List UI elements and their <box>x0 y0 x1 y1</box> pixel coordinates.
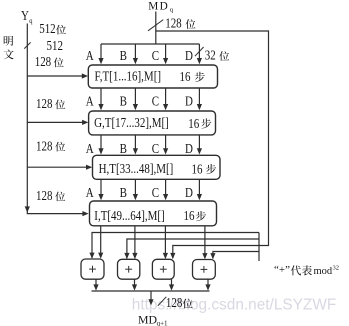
svg-text:q: q <box>29 18 33 25</box>
svg-text:B: B <box>120 93 127 108</box>
wire arrow into round H <box>27 166 89 168</box>
wire adder plus2 output <box>134 279 136 288</box>
svg-text:A: A <box>86 93 94 108</box>
svg-text:D: D <box>185 141 193 156</box>
node slash tick on MDq line <box>148 20 163 31</box>
svg-text:D: D <box>185 93 193 108</box>
svg-text:C: C <box>152 141 159 156</box>
adder plus4 mod 2^32 <box>193 260 216 280</box>
wire arrow into round F <box>27 75 85 77</box>
wire feedback line3 to adder plus3 <box>173 246 259 259</box>
wire feedback from MDq to right bus <box>156 31 269 246</box>
round G box <box>89 111 216 135</box>
wire adder plus3 output <box>171 279 173 288</box>
wire ABCD arrows round G to round H <box>100 135 102 153</box>
svg-text:MD: MD <box>138 313 157 326</box>
svg-text:32: 32 <box>205 48 216 63</box>
wire arrow into round G <box>27 121 85 123</box>
adder plus3 mod 2^32 <box>152 259 174 279</box>
svg-text:16: 16 <box>184 208 195 223</box>
svg-text:MD: MD <box>148 0 169 12</box>
wire Yq vertical line turning into round I <box>27 24 85 214</box>
svg-text:128: 128 <box>166 295 182 310</box>
wire MDq vertical <box>155 12 157 45</box>
wire ABCD arrows round H to round I <box>100 179 102 198</box>
svg-text:C: C <box>152 185 159 200</box>
wire merge line <box>92 290 210 292</box>
node slash tick on Yq line <box>24 42 30 48</box>
wire feedback line1 to adder plus1 <box>92 233 259 259</box>
svg-text:D: D <box>185 185 193 200</box>
svg-text:128: 128 <box>35 54 51 69</box>
svg-text:mod: mod <box>314 266 333 277</box>
wire adder plus4 output <box>207 279 209 288</box>
svg-text:512: 512 <box>39 21 55 36</box>
wire MDq distribution line <box>101 43 199 45</box>
round I box <box>90 201 217 226</box>
svg-text:A: A <box>86 141 94 156</box>
svg-text:32: 32 <box>333 265 340 272</box>
round F box <box>88 65 217 88</box>
wire round I output A to adder plus1 <box>100 226 102 257</box>
wire adder plus1 output <box>95 279 97 288</box>
wire feedback line2 to adder plus2 <box>127 239 259 258</box>
svg-text:128: 128 <box>36 96 52 111</box>
svg-text:A: A <box>86 185 94 200</box>
svg-text:D: D <box>185 48 193 63</box>
wire round I output D to adder plus4 <box>204 226 206 257</box>
node mingwen label <box>4 36 13 46</box>
wire feedback line4 to adder plus4 <box>213 252 259 259</box>
svg-text:H,T[33...48],M[]: H,T[33...48],M[] <box>99 161 174 176</box>
wire B arrow into round F <box>134 44 136 62</box>
adder plus2 mod 2^32 <box>118 259 140 279</box>
svg-text:C: C <box>152 93 159 108</box>
wire C arrow into round F <box>165 44 167 62</box>
wire final output arrow <box>150 291 152 303</box>
svg-text:16: 16 <box>188 116 199 131</box>
wire round I output B to adder plus2 <box>134 226 136 257</box>
svg-text:G,T[17...32],M[]: G,T[17...32],M[] <box>94 115 169 130</box>
wire feedback right vertical bus <box>258 233 260 262</box>
svg-text:q+1: q+1 <box>157 320 168 326</box>
wire D arrow into round F <box>198 44 200 62</box>
svg-text:C: C <box>152 48 159 63</box>
svg-text:I,T[49...64],M[]: I,T[49...64],M[] <box>94 208 164 223</box>
wire A arrow into round F <box>100 44 102 62</box>
svg-text:“+”: “+” <box>274 264 290 276</box>
svg-text:512: 512 <box>47 38 63 53</box>
svg-text:128: 128 <box>36 188 52 203</box>
svg-text:128: 128 <box>165 16 181 31</box>
svg-text:B: B <box>120 48 127 63</box>
node slash tick on D arrow <box>195 47 204 56</box>
svg-text:16: 16 <box>192 161 203 176</box>
svg-text:Y: Y <box>21 8 29 23</box>
round H box <box>93 155 221 179</box>
svg-text:B: B <box>120 141 127 156</box>
svg-text:https://blog.csdn.net/LSYZWF: https://blog.csdn.net/LSYZWF <box>132 297 336 314</box>
wire round I output C to adder plus3 <box>164 226 166 257</box>
adder plus1 mod 2^32 <box>81 259 104 279</box>
wire ABCD arrows round F to round G <box>100 88 102 109</box>
svg-text:B: B <box>120 185 127 200</box>
node slash tick on output arrow <box>158 297 167 306</box>
svg-text:A: A <box>86 48 94 63</box>
svg-text:128: 128 <box>36 138 52 153</box>
svg-text:F,T[1...16],M[]: F,T[1...16],M[] <box>95 68 162 83</box>
svg-text:16: 16 <box>180 69 191 84</box>
